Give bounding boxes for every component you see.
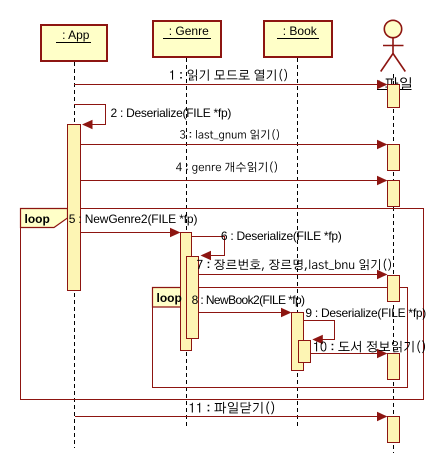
activation 파일 (msg11)	[387, 416, 400, 443]
activation 파일 (msg1)	[387, 84, 400, 108]
object box App	[40, 24, 108, 62]
message 7 arrow : 장르번호 장르명 last_bnu 읽기	[199, 270, 388, 279]
loop fragment (outer) pentagon label	[21, 209, 68, 228]
message 3 arrow : last_gnum 읽기	[81, 140, 388, 149]
activation 파일 (msg10)	[387, 353, 400, 380]
message 3 label	[180, 129, 279, 141]
actor label : 파일	[378, 77, 412, 90]
loop fragment (inner) pentagon label	[153, 288, 199, 308]
lifeline actor 파일	[393, 74, 395, 453]
message 4 label	[176, 161, 277, 173]
message 1 arrow : 읽기 모드로 열기	[74, 80, 388, 89]
loop keyword (inner)	[157, 292, 182, 304]
message 2 self-call Deserialize	[74, 104, 106, 129]
loop fragment (outer) frame	[20, 208, 424, 400]
activation Book 1	[291, 312, 304, 371]
message 8 arrow NewBook2	[199, 308, 292, 317]
message 4 arrow : genre 개수읽기	[81, 176, 388, 185]
message 10 arrow : 도서 정보읽기	[311, 349, 388, 358]
message 11 label	[190, 401, 274, 414]
activation Genre 1	[180, 232, 192, 351]
activation 파일 (msg7)	[387, 275, 400, 302]
message 5 arrow NewGenre2	[81, 228, 181, 237]
message 5 label	[69, 213, 198, 225]
message 2 label	[111, 107, 232, 119]
loop keyword (outer)	[25, 213, 50, 225]
message 7 label	[197, 258, 391, 271]
object box Book	[263, 20, 334, 58]
loop fragment (inner) frame	[152, 287, 408, 388]
message 6 label	[221, 230, 342, 242]
activation App	[67, 124, 81, 291]
activation Genre 2 (nested)	[186, 256, 199, 339]
lifeline Book	[297, 58, 299, 428]
activation 파일 (msg3)	[387, 144, 400, 171]
message 6 self-call Deserialize	[192, 236, 225, 260]
message 9 self-call Deserialize	[304, 320, 335, 344]
activation 파일 (msg4)	[387, 180, 400, 207]
actor 파일 stick figure	[381, 20, 406, 71]
message 9 label	[305, 307, 426, 319]
message 10 label	[314, 340, 425, 353]
lifeline App	[74, 62, 76, 448]
object box Genre	[152, 20, 223, 58]
message 1 label	[170, 69, 287, 82]
lifeline Genre	[186, 58, 188, 428]
message 11 arrow : 파일닫기	[75, 412, 388, 421]
activation Book 2 (nested)	[298, 340, 311, 363]
message 8 label	[192, 294, 305, 306]
